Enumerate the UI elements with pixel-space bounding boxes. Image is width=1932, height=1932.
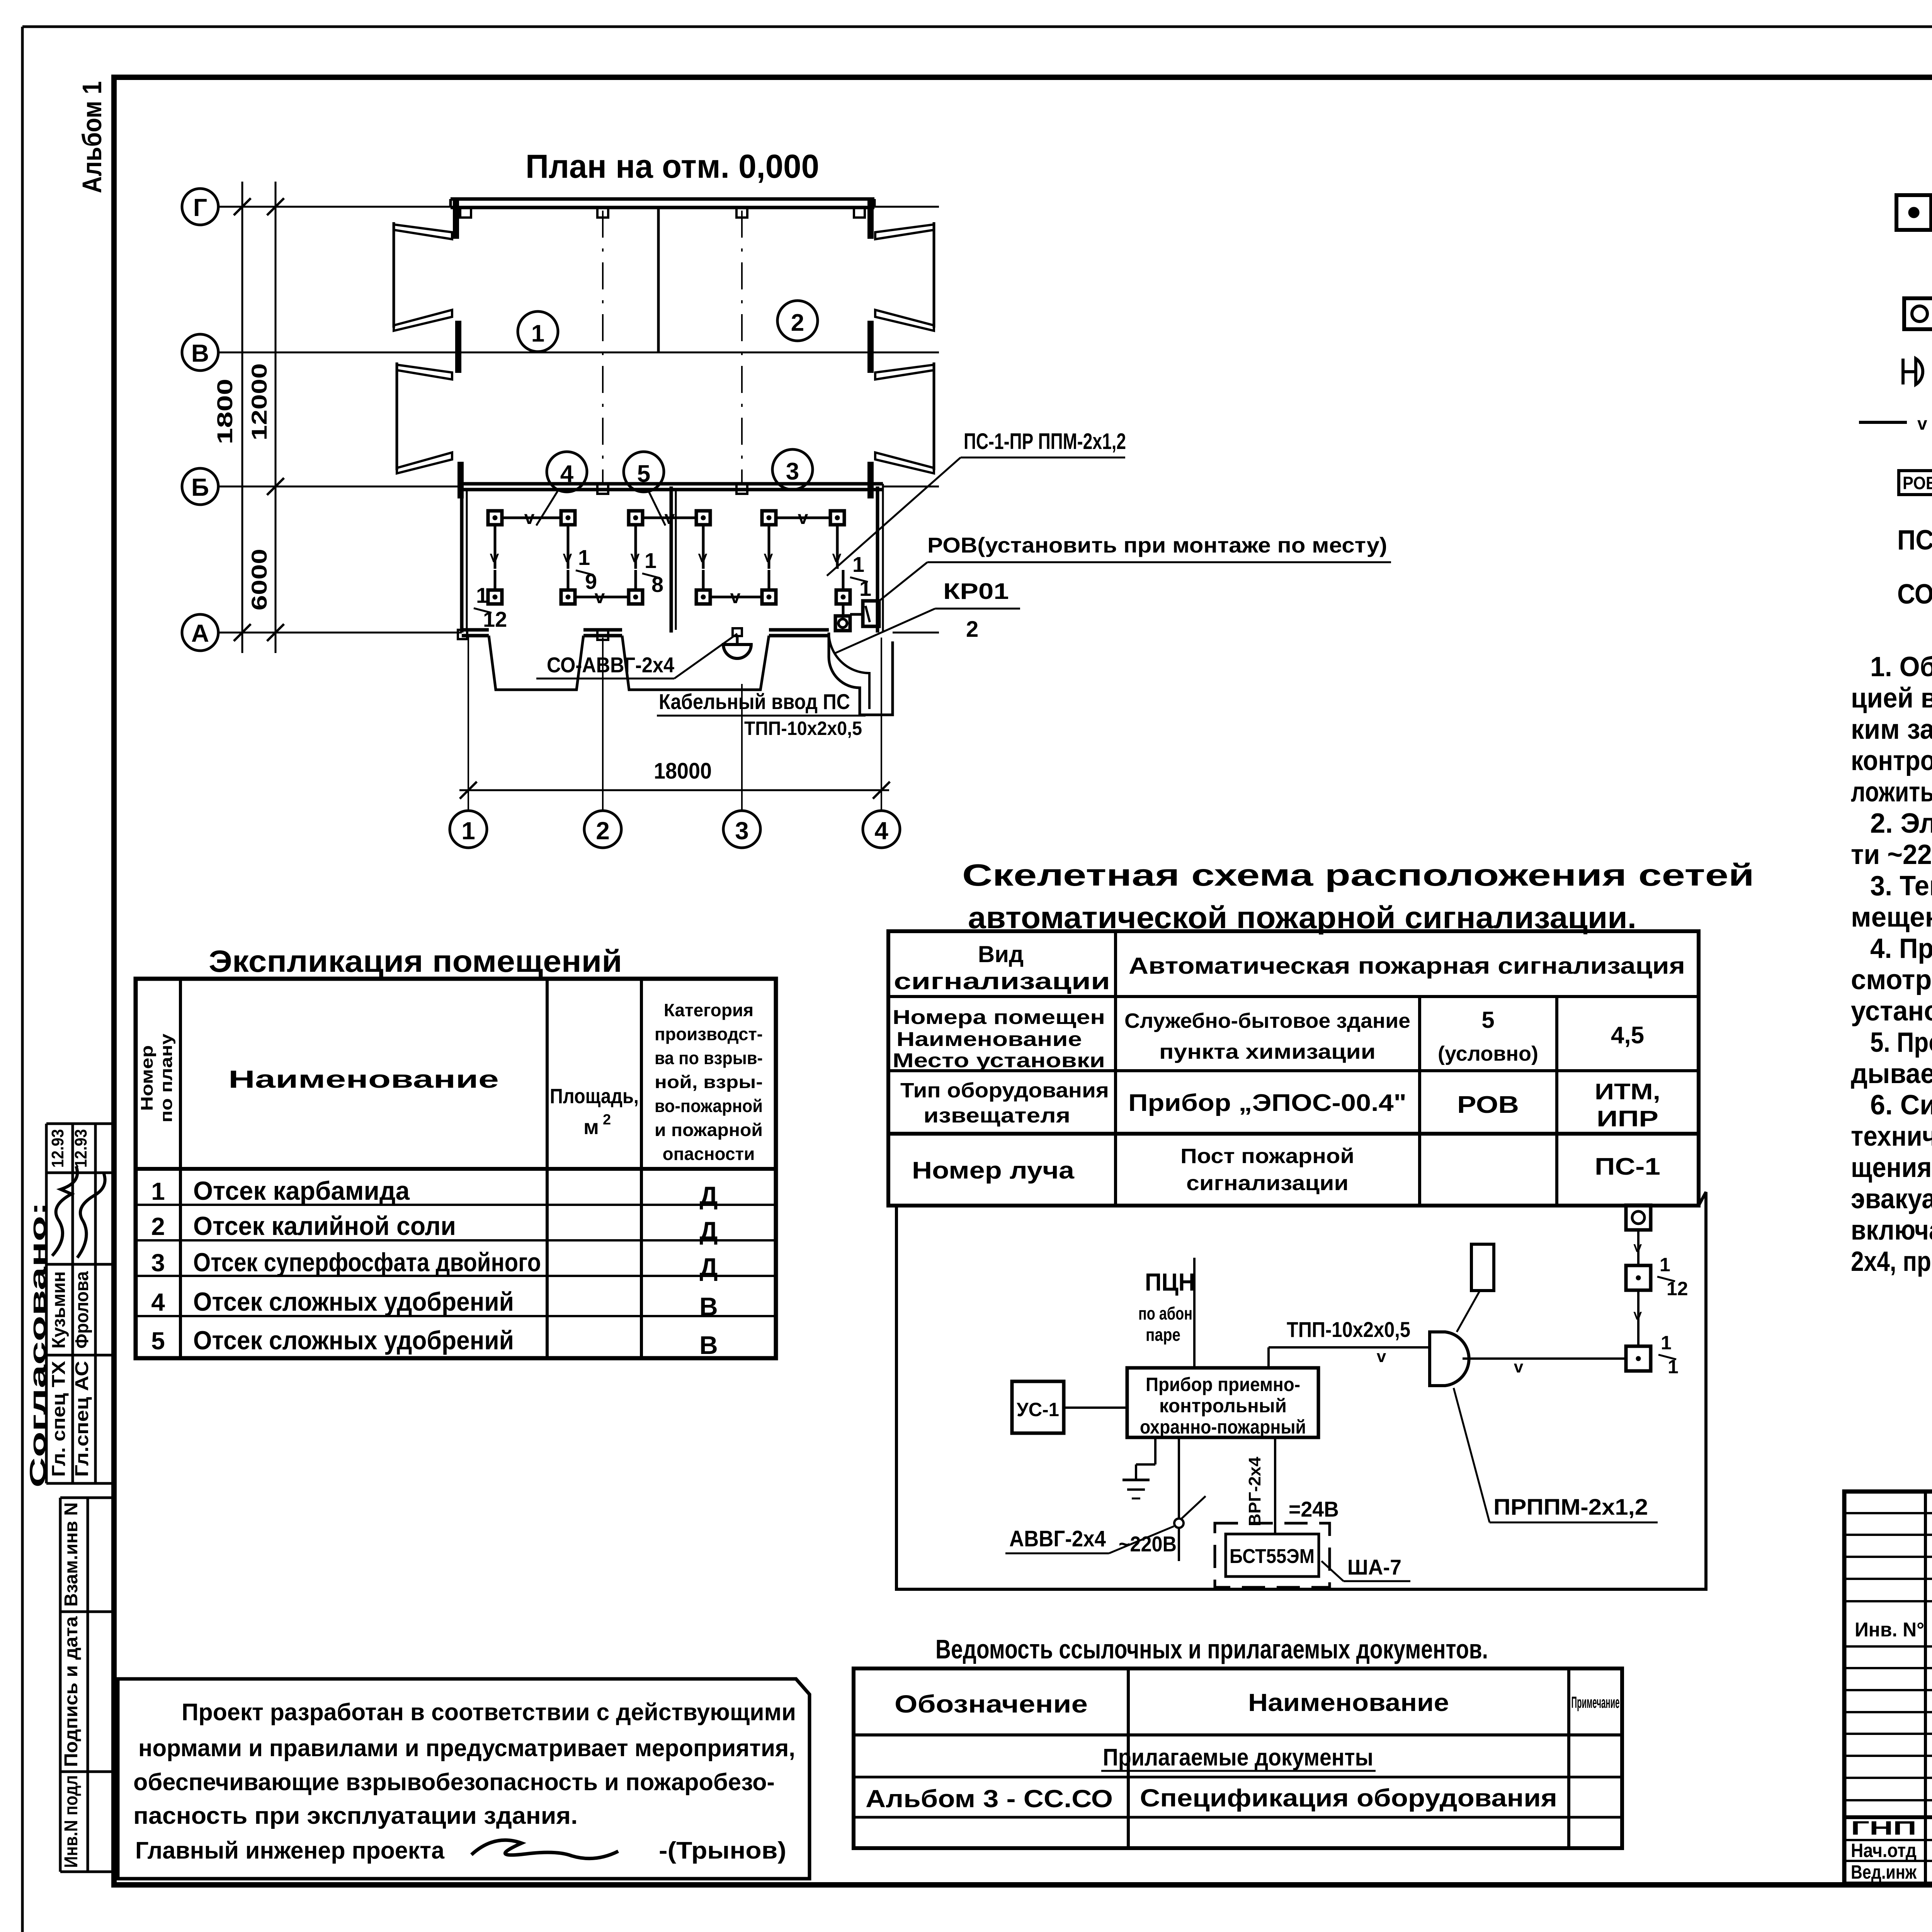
svg-text:А: А [191, 619, 209, 647]
svg-text:2. Электропитание прибора прои: 2. Электропитание прибора произвести по … [1870, 808, 1932, 839]
svg-text:БСТ55ЭМ: БСТ55ЭМ [1230, 1545, 1315, 1568]
svg-text:1: 1 [461, 817, 475, 845]
svg-text:=24В: =24В [1289, 1497, 1339, 1521]
svg-text:Экспликация помещений: Экспликация помещений [209, 944, 622, 978]
svg-text:18000: 18000 [654, 759, 712, 784]
svg-text:v: v [524, 508, 535, 528]
svg-text:1: 1 [151, 1177, 165, 1205]
svg-text:8: 8 [651, 572, 663, 597]
svg-text:Отсек суперфосфата двойного: Отсек суперфосфата двойного [193, 1248, 541, 1277]
svg-text:ПС-1-ПР ППМ-2х1,2: ПС-1-ПР ППМ-2х1,2 [964, 429, 1126, 454]
svg-text:ти ~220В и от батарей = 24В. П: ти ~220В и от батарей = 24В. Прибор зазе… [1851, 839, 1932, 870]
svg-text:дываемым по стене и потолку от: дываемым по стене и потолку открыто. [1851, 1058, 1932, 1089]
svg-text:12.93: 12.93 [48, 1129, 67, 1168]
svg-text:1: 1 [531, 320, 544, 347]
svg-text:1. Оборудование объекта автома: 1. Оборудование объекта автоматической п… [1870, 651, 1932, 682]
svg-text:Спецификация оборудования: Спецификация оборудования [1140, 1784, 1557, 1812]
svg-text:ва по взрыв-: ва по взрыв- [655, 1048, 763, 1068]
svg-text:Д: Д [699, 1181, 718, 1210]
svg-text:2: 2 [603, 1112, 611, 1128]
svg-text:5: 5 [151, 1327, 165, 1355]
svg-text:обеспечивающие взрывобезопасно: обеспечивающие взрывобезопасность и пожа… [133, 1769, 775, 1796]
svg-text:РОВ: РОВ [1903, 473, 1932, 493]
svg-text:Обозначение: Обозначение [895, 1690, 1088, 1718]
svg-text:ВРГ-2х4: ВРГ-2х4 [1245, 1456, 1264, 1526]
svg-text:5: 5 [1481, 1007, 1494, 1033]
svg-text:РОВ(установить при монтаже по: РОВ(установить при монтаже по месту) [927, 533, 1387, 557]
svg-text:12000: 12000 [247, 363, 271, 440]
svg-text:4: 4 [874, 817, 888, 845]
svg-text:1: 1 [1668, 1356, 1679, 1378]
svg-text:ША-7: ША-7 [1347, 1555, 1401, 1579]
svg-text:1: 1 [578, 545, 590, 570]
svg-text:1: 1 [852, 552, 864, 577]
svg-text:Подпись и дата: Подпись и дата [61, 1616, 82, 1767]
svg-text:12: 12 [1667, 1278, 1688, 1299]
svg-text:извещателя: извещателя [923, 1104, 1070, 1127]
svg-text:9: 9 [585, 569, 597, 594]
svg-text:паре: паре [1146, 1325, 1180, 1345]
svg-text:>: > [485, 553, 504, 563]
svg-text:Наименование: Наименование [1248, 1689, 1449, 1716]
svg-text:12.93: 12.93 [71, 1129, 90, 1168]
svg-text:Скелетная схема расположения с: Скелетная схема расположения сетей [962, 858, 1754, 892]
svg-text:Автоматическая пожарная сигнал: Автоматическая пожарная сигнализация [1129, 953, 1685, 979]
svg-text:Инв.N подл: Инв.N подл [61, 1775, 82, 1868]
svg-text:установить в ящике при монтаже: установить в ящике при монтаже по месту … [1851, 996, 1932, 1027]
svg-text:и пожарной: и пожарной [655, 1120, 763, 1140]
svg-text:Отсек сложных удобрений: Отсек сложных удобрений [193, 1287, 514, 1316]
svg-text:6000: 6000 [247, 549, 271, 611]
svg-text:ТПП-10х2х0,5: ТПП-10х2х0,5 [1287, 1317, 1410, 1342]
svg-text:Гл. спец ТХ: Гл. спец ТХ [49, 1361, 69, 1477]
svg-text:Альбом 1: Альбом 1 [77, 81, 107, 193]
svg-text:>: > [558, 553, 577, 563]
svg-text:ИТМ,: ИТМ, [1595, 1079, 1660, 1104]
svg-text:v: v [730, 587, 741, 607]
svg-text:Д: Д [699, 1216, 718, 1245]
svg-text:Вед.инж: Вед.инж [1851, 1861, 1917, 1883]
svg-text:3: 3 [735, 817, 749, 845]
svg-text:v: v [1377, 1347, 1386, 1366]
svg-text:Прибор „ЭПОС-00.4": Прибор „ЭПОС-00.4" [1128, 1090, 1406, 1116]
svg-text:КР01: КР01 [943, 579, 1009, 604]
svg-text:Кабельный ввод ПС: Кабельный ввод ПС [659, 689, 850, 714]
svg-text:1: 1 [859, 576, 871, 600]
svg-text:Примечание: Примечание [1571, 1693, 1620, 1711]
svg-text:охранно-пожарный: охранно-пожарный [1140, 1416, 1306, 1438]
svg-text:5: 5 [637, 461, 650, 487]
svg-text:контрольный охранно-пожарный „: контрольный охранно-пожарный „ЭПОС-004. … [1851, 745, 1932, 776]
svg-text:Место установки: Место установки [893, 1049, 1105, 1072]
svg-text:ТПП-10х2х0,5: ТПП-10х2х0,5 [744, 718, 862, 739]
svg-text:2: 2 [596, 817, 610, 845]
svg-text:Проект разработан в соответств: Проект разработан в соответствии с дейст… [182, 1699, 796, 1726]
svg-text:~220В: ~220В [1119, 1532, 1177, 1556]
svg-text:1: 1 [645, 548, 656, 573]
svg-text:нормами и правилами и предусма: нормами и правилами и предусматривает ме… [138, 1735, 795, 1762]
svg-text:Гл.спец АС: Гл.спец АС [72, 1361, 92, 1477]
svg-text:УС-1: УС-1 [1017, 1399, 1059, 1420]
svg-text:производст-: производст- [655, 1024, 763, 1044]
svg-text:ГНП: ГНП [1851, 1817, 1917, 1839]
svg-text:(условно): (условно) [1438, 1042, 1538, 1065]
svg-text:Наименование: Наименование [896, 1028, 1082, 1051]
svg-text:Категория: Категория [664, 1000, 753, 1020]
svg-text:4: 4 [560, 461, 574, 487]
svg-text:смотрено отключение цепей пита: смотрено отключение цепей питания вентси… [1851, 964, 1932, 995]
svg-text:2х4, прокладываемым отдельно.: 2х4, прокладываемым отдельно. [1851, 1246, 1932, 1277]
svg-text:Главный инженер проекта: Главный инженер проекта [135, 1837, 445, 1864]
svg-text:АВВГ-2х4: АВВГ-2х4 [1009, 1526, 1106, 1551]
svg-text:Альбом 3 - СС.СО: Альбом 3 - СС.СО [866, 1785, 1113, 1813]
svg-text:2: 2 [791, 310, 804, 336]
svg-text:ПЦН: ПЦН [1145, 1268, 1195, 1296]
svg-text:v: v [665, 508, 675, 528]
svg-text:Пост пожарной: Пост пожарной [1180, 1145, 1354, 1168]
svg-text:В: В [699, 1331, 718, 1359]
svg-text:Отсек сложных удобрений: Отсек сложных удобрений [193, 1326, 514, 1355]
svg-text:ПРППМ-2х1,2: ПРППМ-2х1,2 [1493, 1495, 1648, 1520]
svg-text:включаются дежурным персоналом: включаются дежурным персоналом. Сеть вып… [1851, 1215, 1932, 1246]
svg-text:Номер: Номер [138, 1045, 156, 1111]
svg-text:Тип оборудования: Тип оборудования [900, 1079, 1109, 1102]
svg-text:v: v [798, 508, 808, 528]
svg-text:Отсек карбамида: Отсек карбамида [193, 1176, 410, 1206]
svg-text:пасность при эксплуатации здан: пасность при эксплуатации здания. [133, 1803, 578, 1829]
svg-text:4. При срабатывании любого изв: 4. При срабатывании любого извещателя пр… [1870, 933, 1932, 964]
svg-text:План на отм. 0,000: План на отм. 0,000 [526, 148, 819, 185]
svg-text:Отсек калийной соли: Отсек калийной соли [193, 1211, 456, 1241]
svg-text:контрольный: контрольный [1159, 1395, 1287, 1417]
svg-text:1: 1 [1660, 1254, 1670, 1276]
svg-text:-(Трынов): -(Трынов) [659, 1837, 786, 1864]
svg-text:2: 2 [966, 617, 978, 642]
svg-text:пункта химизации: пункта химизации [1159, 1040, 1376, 1063]
svg-text:Вид: Вид [978, 941, 1024, 967]
svg-text:ПС-1: ПС-1 [1595, 1153, 1660, 1180]
svg-text:сигнализации: сигнализации [894, 968, 1110, 994]
svg-text:5. Проводку к извещателям выпо: 5. Проводку к извещателям выполнить кабе… [1870, 1027, 1932, 1058]
svg-text:Наименование: Наименование [228, 1065, 499, 1093]
svg-text:1800: 1800 [213, 379, 237, 444]
svg-text:м: м [583, 1116, 599, 1139]
svg-text:Ведомость ссылочных и прилагае: Ведомость ссылочных и прилагаемых докуме… [935, 1634, 1488, 1664]
svg-text:12: 12 [483, 607, 507, 631]
svg-text:В: В [699, 1292, 718, 1321]
svg-text:Фролова: Фролова [72, 1271, 92, 1349]
svg-text:Площадь,: Площадь, [550, 1085, 639, 1108]
svg-text:6. Система оповещения о пожаре: 6. Система оповещения о пожаре- составна… [1870, 1090, 1932, 1121]
svg-text:4: 4 [151, 1288, 165, 1316]
svg-text:технических средств противопож: технических средств противопожарной защи… [1851, 1121, 1932, 1152]
svg-text:РОВ: РОВ [1457, 1092, 1519, 1118]
svg-text:Г: Г [193, 194, 207, 221]
svg-text:3: 3 [151, 1249, 165, 1277]
svg-text:3: 3 [786, 458, 799, 485]
svg-text:v: v [1917, 413, 1927, 434]
svg-text:эвакуации людей. При поступлен: эвакуации людей. При поступлении сигнала… [1851, 1184, 1932, 1214]
svg-text:щения людей о пожаре установит: щения людей о пожаре установить звонки М… [1851, 1152, 1932, 1183]
svg-text:мещения светильников, в конце: мещения светильников, в конце луча- ручн… [1851, 902, 1932, 933]
svg-text:>: > [693, 553, 712, 563]
svg-text:цией выполнено в соответствии: цией выполнено в соответствии с ВСН-25-0… [1851, 683, 1932, 714]
svg-text:СО: СО [1897, 579, 1932, 610]
svg-text:3. Тепловые пожарные извещател: 3. Тепловые пожарные извещатели ИТМ уста… [1870, 871, 1932, 901]
svg-text:ИПР: ИПР [1597, 1106, 1658, 1131]
svg-text:Номера помещен: Номера помещен [893, 1006, 1105, 1029]
svg-text:ПС: ПС [1897, 525, 1932, 556]
svg-text:1: 1 [476, 583, 488, 607]
svg-text:4,5: 4,5 [1611, 1022, 1644, 1049]
svg-text:ким заданием. Сигналы о пожаре: ким заданием. Сигналы о пожаре подаются … [1851, 714, 1932, 745]
svg-text:1: 1 [1661, 1332, 1672, 1354]
svg-text:опасности: опасности [663, 1144, 755, 1164]
svg-text:СО-АВВГ-2х4: СО-АВВГ-2х4 [547, 653, 674, 677]
svg-text:сигнализации: сигнализации [1186, 1172, 1349, 1195]
svg-text:Номер луча: Номер луча [912, 1157, 1075, 1184]
svg-text:Прилагаемые документы: Прилагаемые документы [1103, 1744, 1373, 1771]
svg-text:2: 2 [151, 1213, 165, 1240]
svg-text:Б: Б [191, 473, 209, 501]
svg-text:ной, взры-: ной, взры- [655, 1072, 763, 1092]
svg-text:Д: Д [699, 1253, 718, 1281]
svg-text:Прибор приемно-: Прибор приемно- [1146, 1374, 1300, 1395]
svg-text:Согласовано:: Согласовано: [26, 1202, 51, 1488]
svg-text:по абон: по абон [1138, 1303, 1192, 1323]
svg-text:В: В [191, 339, 209, 367]
svg-text:во-пожарной: во-пожарной [655, 1096, 763, 1116]
svg-text:ложить в служебно- бытовом зда: ложить в служебно- бытовом здании пункта… [1851, 777, 1932, 808]
svg-text:>: > [626, 553, 645, 563]
svg-text:Служебно-бытовое здание: Служебно-бытовое здание [1124, 1009, 1410, 1032]
svg-text:Взам.инв N: Взам.инв N [61, 1502, 82, 1607]
svg-text:по плану: по плану [157, 1033, 176, 1122]
svg-text:Нач.отд: Нач.отд [1851, 1840, 1917, 1861]
svg-text:Инв. N°: Инв. N° [1855, 1619, 1924, 1641]
svg-text:>: > [759, 553, 778, 563]
svg-text:v: v [1514, 1357, 1524, 1376]
svg-text:Кузьмин: Кузьмин [49, 1271, 69, 1349]
